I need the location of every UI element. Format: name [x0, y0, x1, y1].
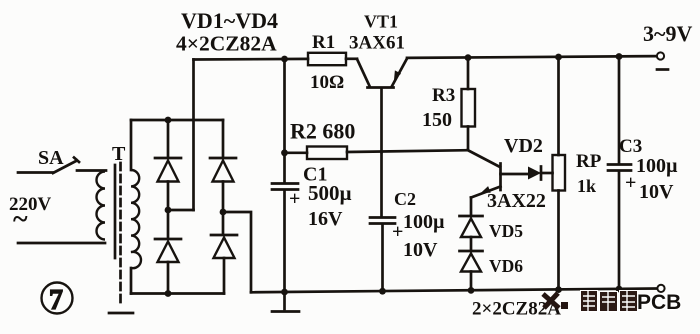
label minus [657, 68, 668, 71]
capacitor C3 [608, 57, 631, 290]
junction rail C1 branch [281, 56, 288, 63]
wire left branch bottom lead [167, 262, 170, 294]
junction RP top [555, 54, 562, 61]
junction RP bottom [555, 286, 562, 293]
wire main top rail right [407, 56, 657, 58]
svg-text:500µ: 500µ [308, 181, 352, 205]
svg-text:3~9V: 3~9V [643, 21, 692, 46]
svg-text:+: + [289, 188, 300, 210]
wire right midpoint to bottom rail [223, 212, 251, 292]
wire main bottom rail [251, 289, 657, 293]
transformer T primary coil [97, 172, 106, 240]
wire riser to main rail [192, 60, 195, 211]
svg-text:SA: SA [38, 147, 64, 169]
wire midpoint to riser [168, 209, 194, 212]
watermark [543, 291, 681, 314]
wire VT1 base down through C2 [380, 152, 383, 216]
svg-text:VD6: VD6 [489, 256, 523, 276]
junction C2 bottom [379, 288, 386, 295]
svg-text:16V: 16V [308, 208, 343, 230]
diode VD3 upper-right [210, 158, 236, 182]
output terminal positive [657, 285, 664, 292]
potentiometer RP [553, 57, 566, 290]
wire bridge top rail [131, 119, 223, 122]
capacitor C1 [272, 184, 298, 293]
svg-text:R3: R3 [432, 85, 455, 106]
switch SA [18, 158, 106, 174]
svg-text:PCB: PCB [637, 291, 681, 314]
svg-text:10V: 10V [403, 239, 438, 261]
svg-text:1k: 1k [577, 176, 596, 196]
svg-text:R1: R1 [312, 32, 335, 53]
svg-text:~: ~ [13, 204, 28, 235]
wire R2 to VT2 collector node [347, 150, 468, 152]
ground at C1 [272, 292, 299, 312]
svg-text:R2 680: R2 680 [290, 119, 355, 144]
resistor R2 [285, 147, 348, 160]
wire left branch middle [167, 182, 170, 239]
svg-text:VD1~VD4: VD1~VD4 [181, 8, 278, 33]
junction C3 top [616, 53, 623, 60]
capacitor C2 [370, 218, 395, 292]
figure number 7 [42, 283, 73, 317]
transformer core line [114, 165, 117, 258]
wire left branch upper lead [167, 120, 170, 158]
svg-text:VT1: VT1 [364, 12, 398, 32]
transistor VT2 3AX22 [468, 150, 529, 216]
wire right branch middle [222, 182, 225, 235]
svg-text:+: + [392, 221, 403, 243]
transformer T secondary coil [131, 170, 141, 268]
svg-text:7: 7 [49, 285, 63, 316]
svg-text:VD2: VD2 [504, 135, 543, 157]
junction left branch bottom [165, 290, 172, 297]
junction left branch top [165, 117, 172, 124]
svg-text:100µ: 100µ [636, 155, 678, 177]
svg-text:VD5: VD5 [489, 221, 523, 241]
wire C1 branch vertical [283, 59, 286, 182]
diode VD5 [460, 216, 483, 251]
wire bridge bottom rail [131, 292, 224, 295]
transistor VT1 [357, 59, 407, 153]
transformer shield dashed line [119, 163, 122, 305]
svg-text:100µ: 100µ [403, 211, 445, 233]
junction R3 top [465, 54, 472, 61]
svg-text:150: 150 [422, 109, 452, 131]
resistor R3 [462, 58, 476, 150]
wire main top rail left [194, 58, 309, 61]
output terminal negative [657, 52, 664, 59]
junction left branch midpoint [165, 207, 172, 214]
diode VD2 lower-left [155, 239, 181, 262]
wire R1 to VT1 [346, 57, 357, 60]
svg-text:10V: 10V [639, 181, 674, 203]
wire secondary bottom lead [130, 268, 133, 294]
resistor R1 [308, 53, 346, 65]
svg-text:+: + [625, 172, 636, 194]
svg-text:10Ω: 10Ω [310, 72, 344, 93]
wire right branch top drop [222, 120, 225, 158]
junction C3 bottom [616, 286, 623, 293]
wire 220V bottom [18, 242, 105, 245]
shield ground [109, 312, 133, 315]
junction VD6 bottom [468, 287, 475, 294]
wire secondary top lead [130, 120, 133, 170]
junction right branch midpoint [220, 209, 227, 216]
diode VD4 lower-right [211, 235, 237, 258]
svg-text:4×2CZ82A: 4×2CZ82A [176, 32, 277, 56]
svg-text:3AX61: 3AX61 [349, 33, 405, 54]
diode VD2 [528, 167, 553, 180]
svg-text:3AX22: 3AX22 [487, 190, 546, 212]
svg-text:RP: RP [576, 151, 602, 172]
diode VD1 upper-left [155, 158, 181, 182]
svg-text:T: T [112, 143, 126, 165]
junction R2 node [281, 149, 288, 156]
junction C1 ground node [281, 289, 288, 296]
svg-text:C2: C2 [394, 189, 416, 209]
svg-text:C3: C3 [619, 136, 642, 157]
diode VD6 [460, 251, 483, 291]
wire right branch bottom lead [223, 258, 226, 294]
